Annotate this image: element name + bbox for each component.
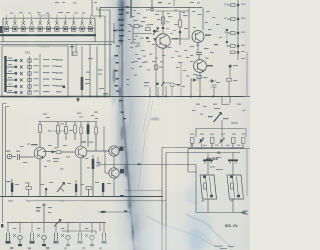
wire audio out y164 [98, 157, 196, 165]
potentiometer arrow RF [153, 28, 159, 36]
wire T1 collector to C4 [43, 151, 56, 153]
wire left edge drop A [3, 104, 7, 223]
resistor R22 x180 [179, 11, 182, 45]
transistor T5 [156, 34, 170, 48]
IF cluster row y82-88 [150, 82, 174, 96]
dark marks x227 [226, 29, 228, 31]
ladder rung 1 [227, 4, 239, 7]
capacitor C4 interstage [56, 151, 75, 154]
wire x104 drop [103, 126, 105, 151]
transformer TR2 top bar [228, 153, 238, 176]
wire frame x189 [188, 8, 190, 40]
bottom right tiny text [214, 246, 223, 247]
S2 row 6 [7, 91, 32, 94]
dark comp x230 y66 [229, 65, 232, 78]
paper background [0, 0, 250, 250]
crease hairlines below bus [129, 100, 153, 190]
wire Tunes line y44 [0, 43, 112, 45]
capacitor in frame R [231, 183, 234, 189]
resistor C10 [197, 76, 201, 79]
wire y33 [133, 33, 152, 35]
capacitor C elec [75, 180, 77, 196]
potentiometer arrow vol [214, 113, 222, 123]
nested corner y10 [97, 7, 114, 44]
transistor T1 [34, 147, 46, 159]
wire stem x44 [42, 203, 46, 222]
junction blob under bus [77, 97, 80, 103]
potentiometer arrow tree [54, 220, 61, 227]
wire tree second rail [62, 223, 100, 235]
stub x230 [229, 97, 231, 104]
S2 row labels [8, 58, 12, 59]
fold core crease line [122, 0, 135, 250]
terminal circle x152 [151, 8, 154, 11]
resistor y79 [227, 78, 232, 96]
fold dark smudges [113, 2, 135, 242]
wire y218.5 [196, 149, 247, 213]
drops [8, 223, 104, 234]
S2 row 3 [7, 72, 32, 75]
stub x222 [221, 97, 223, 106]
switch bank S2 thick bar [4, 56, 6, 92]
ladder rung 4 [227, 45, 239, 48]
nested corner x92 [92, 0, 105, 16]
switch bank S1 thick bar [0, 34, 96, 36]
bottom cluster 3 [30, 233, 35, 244]
capacitor in frame L [204, 183, 207, 189]
S2 row 5 [7, 85, 32, 88]
resistor R21 [146, 28, 151, 31]
wire frame bottoms [196, 165, 233, 213]
S2 row 2 [7, 65, 32, 68]
det row diode 2 [219, 138, 224, 148]
node stub x152 top [151, 0, 153, 8]
small kink box x74 [73, 52, 77, 55]
capacitor C elec x88 (dark) [87, 122, 90, 148]
node stub x174 top [173, 0, 175, 6]
fold crease band (vertical, centre) [102, 0, 158, 250]
diode D1 [191, 78, 198, 96]
wire T2 emitter down [80, 158, 82, 196]
wire left edge x188 [188, 149, 197, 173]
pot labels [208, 116, 213, 117]
capacitor C elec [102, 183, 104, 196]
resistor R9 over T2 [80, 122, 82, 147]
node stub x131 top (dark) [130, 0, 132, 18]
switch units row [4, 19, 92, 31]
det row diode 1 [199, 138, 204, 148]
wire top bus y7.5 [100, 8, 202, 18]
switch unit top ticks [7, 15, 91, 19]
bottom cluster 5 [54, 233, 59, 244]
subtle grain [0, 0, 250, 250]
bottom cluster 2 (transistor) [18, 235, 22, 246]
bottom cluster 4 (transistor) [42, 235, 46, 246]
transformer TR1 top bar [203, 153, 213, 176]
S2 row 4 [7, 78, 32, 81]
bus thick left segment [0, 96, 110, 98]
wire amp top rail [38, 121, 97, 123]
faint wire x181 [180, 63, 182, 96]
junction dots on bus [81, 96, 214, 98]
bottom text marks [10, 247, 102, 248]
connector arrow [241, 211, 248, 215]
switch bank S2 box [2, 46, 68, 97]
bottom cluster 8 (transistor) [90, 235, 94, 246]
det row comp 1 [190, 138, 194, 148]
faint wire y190 [125, 190, 162, 192]
wire T5 emitter down [162, 48, 164, 96]
wire nested corner B [166, 153, 240, 250]
scanner tone bands [30, 0, 250, 250]
resistor R10 [26, 182, 31, 196]
faint stain bottom centre of fold [125, 192, 136, 225]
transistor T6 [192, 31, 204, 43]
wire left edge drop B [6, 107, 10, 197]
main ground bus y96.5 [0, 96, 250, 98]
S2 row 1 [7, 59, 32, 62]
small dark mark [162, 27, 164, 29]
wire x133 [130, 26, 140, 43]
labels near x72-90 [70, 46, 74, 47]
capacitor C elec x93 (dark) [92, 155, 95, 196]
wire rail stub y131 [53, 130, 66, 132]
wire y148.5 [188, 148, 250, 150]
paper shading patches [0, 0, 250, 250]
wire inner top bus y11 [155, 10, 189, 12]
wire frame x203 [202, 8, 204, 31]
fold top reinforcement [118, 0, 126, 34]
transistor T2 [75, 146, 87, 158]
ladder labels [241, 4, 246, 5]
water stain bottom right [147, 187, 232, 250]
transistor T7 [194, 60, 207, 73]
speaker frame L [200, 175, 217, 199]
input jack J1 [7, 154, 16, 159]
diode D2 [209, 79, 216, 83]
ladder rung 5 [231, 51, 240, 54]
nested bus verticals [100, 8, 110, 97]
bottom row: capacitor C elec 40u [11, 179, 13, 196]
lower ground bus y196.5 [0, 196, 163, 198]
RF labels [133, 20, 138, 21]
wire distribution rail y222 [7, 222, 106, 224]
small dark square [63, 86, 66, 89]
bottom cluster 7 [78, 233, 83, 244]
capacitor C3 input [18, 154, 35, 160]
wire nested corner A [162, 148, 244, 250]
ladder rung 2 [227, 18, 239, 21]
IF column x156 [154, 44, 158, 96]
resistor R4 over T1 [39, 122, 42, 148]
left margin blob [0, 26, 2, 33]
resistor R8 [95, 122, 98, 152]
lower rail y200.5 [30, 200, 166, 202]
S2 vertical connector [30, 54, 41, 95]
amp labels [31, 144, 37, 145]
det row comp 2 [210, 138, 214, 148]
speaker frame R [227, 175, 244, 199]
wire y128.5 [196, 120, 246, 137]
wire drop x163 from bus [162, 11, 164, 33]
switch bank S1 box [0, 18, 114, 42]
ladder rung 3 [227, 32, 239, 35]
dark label column on fold (top) [113, 9, 127, 212]
bus verticals to ground [72, 44, 97, 96]
wire between T3 T4 [105, 151, 114, 196]
capacitor C19 [196, 53, 202, 61]
small cap [45, 188, 47, 196]
wire ladder spine x238 [237, 0, 239, 60]
transistor T3 (on fold) [109, 146, 119, 156]
dark mark [153, 30, 155, 32]
wire T7 down [199, 72, 201, 96]
resistor R7 [74, 122, 77, 141]
faint x227 [226, 28, 228, 47]
bank top labels [58, 12, 63, 13]
det row comp 4 [241, 138, 245, 148]
tree labels [36, 207, 41, 208]
smudge centre [151, 118, 160, 121]
small dark mark [52, 151, 54, 153]
transformer labels [216, 157, 221, 158]
extra RF-area labels [56, 7, 245, 115]
page washes [50, 0, 250, 250]
capacitor C elec (dark) x82 [81, 77, 84, 90]
resistor R11 [86, 187, 91, 196]
top edge tiny labels [55, 2, 59, 3]
capacitor C22 [212, 85, 217, 96]
wire T1 emitter down [39, 159, 41, 196]
wire T5 collector right [170, 38, 189, 40]
bottom cluster 6 (transistor) [66, 235, 70, 246]
resistor R5 [57, 122, 60, 149]
transistor T4 (on fold) [109, 168, 119, 178]
cluster far left [1, 224, 3, 227]
IF row labels [133, 61, 138, 62]
det row labels [190, 134, 194, 135]
capacitor C18 [130, 25, 143, 28]
bus left labels [126, 79, 129, 80]
cluster X marks [13, 234, 88, 237]
fold secondary crease line [119, 0, 120, 108]
resistor R20 [162, 17, 165, 24]
bottom cluster 9 [102, 233, 107, 244]
det row comp 3 [231, 138, 235, 148]
potentiometer arrow [57, 183, 65, 193]
wire T2 to driver [87, 150, 110, 152]
wire T6 down [197, 43, 199, 53]
bottom cluster 1 [6, 233, 11, 244]
resistor R6 [65, 122, 68, 141]
wire right edge x247 [246, 52, 248, 96]
wire y212 to fold [98, 211, 131, 213]
